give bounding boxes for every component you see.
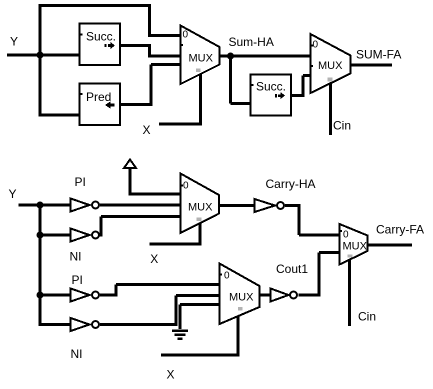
svg-text:Y: Y <box>9 187 17 201</box>
svg-text:Cin: Cin <box>333 119 351 133</box>
svg-text:X: X <box>150 252 158 266</box>
svg-text:NI: NI <box>70 250 82 264</box>
svg-text:X: X <box>143 123 151 137</box>
svg-text:MUX: MUX <box>229 292 254 304</box>
svg-text:0: 0 <box>183 181 189 192</box>
svg-text:MUX: MUX <box>318 60 343 72</box>
svg-text:X: X <box>167 368 175 382</box>
svg-text:PI: PI <box>75 175 86 189</box>
svg-text:Sum-HA: Sum-HA <box>229 35 274 49</box>
svg-text:PI: PI <box>72 273 83 287</box>
svg-text:0: 0 <box>183 30 189 41</box>
svg-text:Succ.: Succ. <box>256 80 286 94</box>
svg-text:Cin: Cin <box>358 310 376 324</box>
svg-text:MUX: MUX <box>343 241 368 253</box>
svg-text:Cout1: Cout1 <box>276 262 308 276</box>
svg-text:Carry-FA: Carry-FA <box>376 223 424 237</box>
svg-text:0: 0 <box>224 271 230 282</box>
svg-text:0: 0 <box>343 230 349 241</box>
svg-text:NI: NI <box>71 347 83 361</box>
svg-text:0: 0 <box>313 40 319 51</box>
svg-text:MUX: MUX <box>189 53 214 65</box>
svg-text:Succ.: Succ. <box>86 30 116 44</box>
svg-text:Carry-HA: Carry-HA <box>266 177 316 191</box>
svg-text:MUX: MUX <box>188 202 213 214</box>
svg-text:Pred: Pred <box>86 90 111 104</box>
svg-text:Y: Y <box>10 35 18 49</box>
svg-text:SUM-FA: SUM-FA <box>356 48 401 62</box>
